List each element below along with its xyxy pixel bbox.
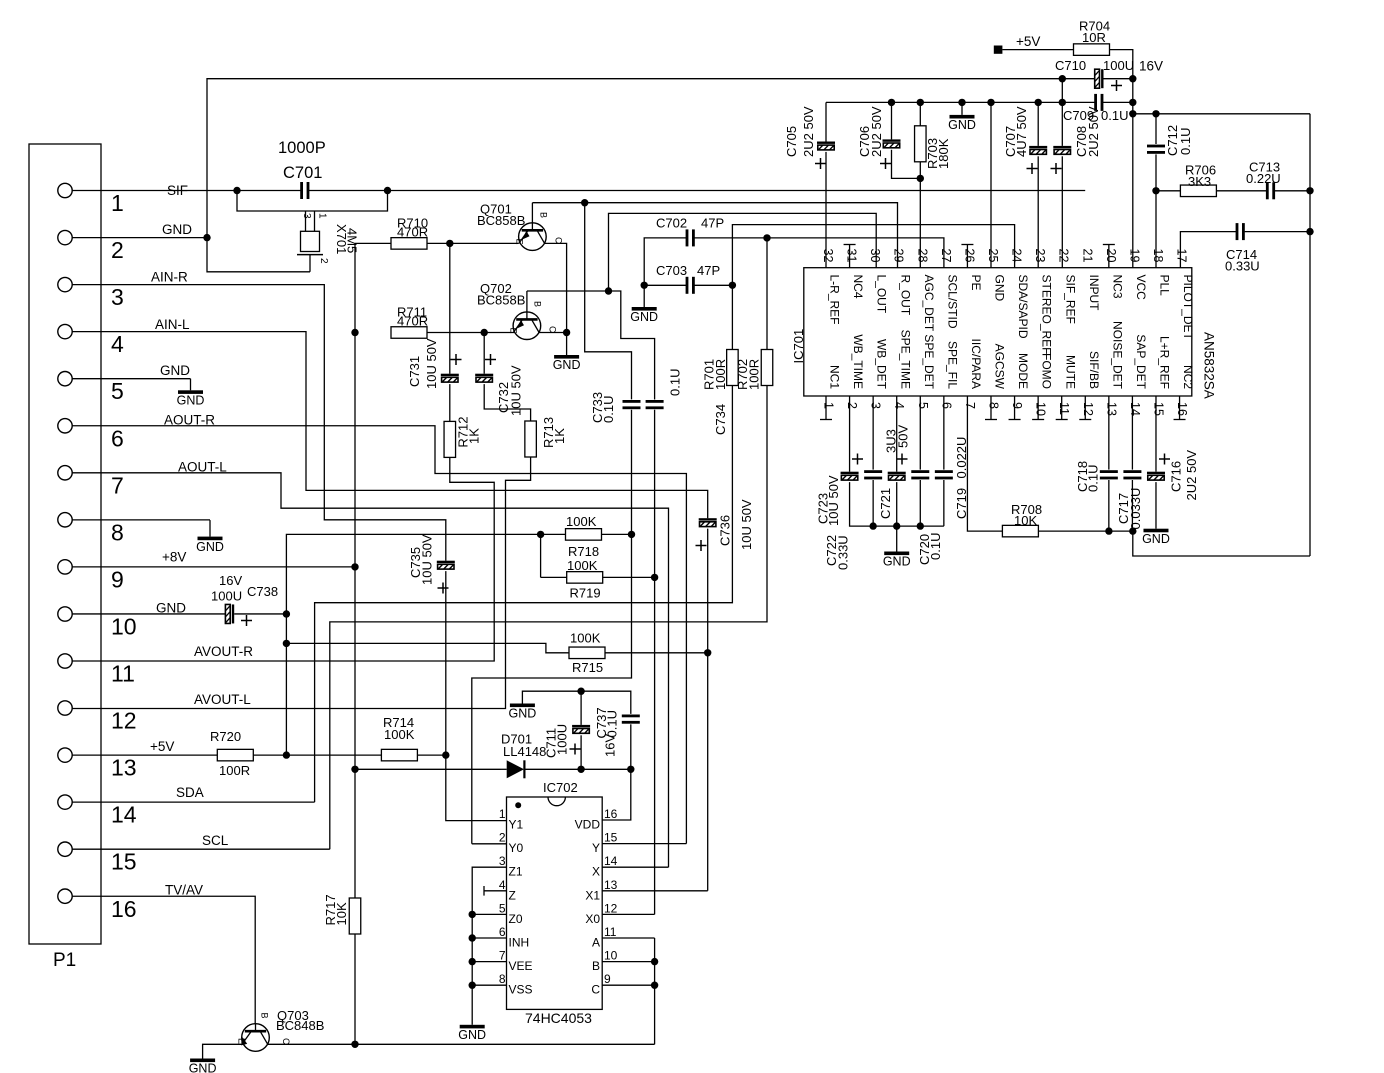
svg-text:16V: 16V: [603, 734, 618, 757]
svg-text:C710: C710: [1055, 58, 1086, 73]
Q703 pin letters: [237, 1013, 292, 1046]
svg-text:B: B: [539, 212, 549, 218]
C709 label: [1063, 108, 1128, 123]
C710 label: [1055, 58, 1134, 73]
node junction bottom rail pin3: [869, 522, 876, 529]
svg-text:STEREO_REF: STEREO_REF: [1040, 275, 1054, 355]
C720 label: [917, 533, 943, 565]
wire GND pin5: [72, 378, 190, 380]
IC702 part number: [525, 1010, 592, 1026]
svg-text:INPUT: INPUT: [1087, 275, 1101, 312]
node junction GND pin2: [203, 234, 210, 241]
transistor Q702: [513, 291, 541, 340]
wire +8V riser: [354, 243, 356, 769]
resistor R702: [761, 350, 773, 386]
capacitor C708: [1053, 146, 1071, 154]
svg-text:15: 15: [1151, 402, 1165, 416]
node junction VSS: [469, 982, 476, 989]
IC701 pin 22 number: [1057, 249, 1071, 263]
wire pin3 cap to rail: [872, 480, 874, 526]
wire C701 bypass loop: [237, 191, 388, 212]
wire C707 to pin23: [1037, 156, 1039, 267]
IC701 pin 19 name VCC: [1134, 275, 1148, 301]
IC702 pin 12 name X0: [585, 912, 600, 926]
svg-text:PILOT_DET: PILOT_DET: [1181, 275, 1195, 341]
wire Q703 emitter to gnd: [203, 1044, 242, 1058]
svg-text:INH: INH: [509, 936, 530, 950]
X701 pin 3 label: [301, 213, 312, 219]
wire Q703 collector line: [268, 1043, 655, 1045]
ground symbol C702 C703: [630, 285, 658, 324]
wire Q701 base to pin29 R_OUT: [532, 203, 897, 268]
wire R701 to SDA line: [315, 386, 733, 803]
C701 value 1000P: [278, 139, 326, 157]
wire AOUT-L pin7 to mux X: [72, 473, 668, 867]
C711 plus: [570, 744, 581, 755]
svg-text:Z1: Z1: [509, 865, 523, 879]
svg-text:1: 1: [317, 213, 328, 219]
IC701 pin 3 name WB_DET: [875, 339, 889, 390]
wire GND pin8: [72, 519, 210, 521]
svg-text:E: E: [515, 239, 525, 245]
P1 pin 12 number: [111, 708, 137, 734]
svg-text:100K: 100K: [570, 630, 601, 645]
svg-text:SCL/STID: SCL/STID: [945, 275, 959, 329]
C708 plus: [1051, 163, 1062, 174]
svg-text:5: 5: [916, 402, 930, 409]
net label SDA: [176, 785, 204, 800]
svg-text:21: 21: [1080, 249, 1094, 263]
wire SDA pin14: [72, 801, 314, 803]
capacitor C735: [437, 561, 455, 569]
svg-text:R719: R719: [570, 586, 601, 601]
wire R719 right: [603, 576, 655, 578]
svg-text:SPE_DET: SPE_DET: [922, 334, 936, 389]
node junction R714 out: [442, 751, 449, 758]
wire R704 to VCC corner: [1110, 50, 1133, 79]
svg-text:SPE_TIME: SPE_TIME: [898, 330, 912, 389]
ground symbol top rail: [948, 102, 976, 132]
svg-text:100U: 100U: [1103, 58, 1134, 73]
svg-text:SIF_REF: SIF_REF: [1063, 275, 1077, 324]
wire C732 to R713: [484, 384, 530, 421]
R708 label: [1011, 502, 1042, 528]
IC702 pin 10 name B: [592, 959, 600, 973]
IC702 pin 9 name C: [591, 983, 600, 997]
IC701 pin 3 number: [869, 402, 883, 409]
D701 label: [501, 732, 546, 760]
wire R703 bottom to pin28: [919, 162, 921, 268]
P1 pin 15 number: [111, 849, 137, 875]
svg-text:74HC4053: 74HC4053: [525, 1010, 592, 1026]
svg-text:4: 4: [499, 878, 506, 892]
svg-text:14: 14: [111, 802, 137, 828]
C735 plus: [438, 583, 449, 594]
IC701 pin 20 name NC3: [1110, 275, 1124, 299]
IC701 pin 24 number: [1010, 249, 1024, 263]
IC701 pin 8 stub: [985, 396, 997, 420]
svg-text:47P: 47P: [701, 216, 724, 231]
node junction B: [651, 958, 658, 965]
wire mux Y pin15: [602, 843, 686, 845]
wire C707 riser top: [1037, 102, 1039, 145]
C719 label: [954, 437, 969, 519]
node junction right bus C713: [1306, 187, 1313, 194]
node junction bottom rail pin5: [917, 522, 924, 529]
node junction C702 R702: [763, 234, 770, 241]
svg-text:5: 5: [111, 378, 124, 404]
wire C731 top: [449, 243, 451, 373]
svg-text:100R: 100R: [219, 763, 250, 778]
IC701 pin 15 number: [1151, 402, 1165, 416]
IC701 pin 2 number: [845, 402, 859, 409]
svg-text:IIC/PARA: IIC/PARA: [969, 339, 983, 389]
wire R710 to Q701 emitter: [427, 242, 519, 244]
wire mux X pin14: [602, 866, 668, 868]
node junction R708 pin14: [1129, 527, 1136, 534]
IC702 pin 5 number: [499, 901, 506, 915]
C721 label: [878, 425, 911, 519]
R710 label: [397, 216, 428, 240]
IC701 pin 27 number: [939, 249, 953, 263]
IC702 pin 8 number: [499, 972, 506, 986]
svg-text:1000P: 1000P: [278, 139, 326, 157]
IC701 pin 6 name SPE_FIL: [945, 341, 959, 389]
svg-text:19: 19: [1127, 249, 1141, 263]
IC702 pin4 Z stub: [484, 886, 507, 896]
op-amp U IC701 box: [804, 268, 1192, 396]
svg-text:B: B: [260, 1013, 270, 1019]
C732 plus: [485, 354, 496, 365]
P1 pin 1 number: [111, 190, 124, 216]
svg-text:GND: GND: [162, 222, 192, 237]
C733 label: [590, 392, 616, 423]
IC701 pin 6 number: [939, 402, 953, 409]
svg-text:SCL: SCL: [202, 833, 229, 848]
wire pin2 riser: [849, 396, 851, 472]
node junction R720 out: [283, 751, 290, 758]
svg-text:1: 1: [822, 402, 836, 409]
svg-text:IC702: IC702: [543, 780, 578, 795]
wire mux A B C join: [602, 938, 654, 1044]
R711 label: [397, 305, 428, 329]
wire C712 top: [1155, 114, 1157, 144]
svg-text:10U 50V: 10U 50V: [420, 534, 435, 585]
wire VCC vertical: [1132, 79, 1134, 268]
resistor R710: [391, 238, 427, 250]
svg-text:P1: P1: [53, 950, 76, 971]
IC702 pin 9 number: [604, 972, 611, 986]
svg-text:GND: GND: [553, 358, 581, 372]
wire SIF C701 to pin21 INPUT: [309, 190, 1085, 192]
capacitor C719: [935, 470, 953, 479]
svg-text:GND: GND: [196, 540, 224, 554]
svg-text:NC3: NC3: [1110, 275, 1124, 299]
svg-text:9: 9: [1010, 402, 1024, 409]
wire TV/AV pin16: [72, 896, 255, 1023]
wire R717 bottom: [354, 934, 356, 1044]
IC701 pin 27 name SCL/STID: [945, 275, 959, 329]
svg-text:2: 2: [111, 237, 124, 263]
P1 pin 4 number: [111, 331, 124, 357]
svg-text:20: 20: [1104, 249, 1118, 263]
svg-text:NC4: NC4: [851, 275, 865, 299]
svg-text:R715: R715: [572, 660, 603, 675]
wire AIN-L pin4: [72, 332, 708, 519]
net label SIF: [167, 183, 188, 198]
node junction top rail at C710 branch: [1059, 75, 1066, 82]
svg-text:16V: 16V: [219, 573, 242, 588]
resistor R719: [567, 572, 603, 584]
wire C703 left: [644, 284, 686, 286]
wire C708 riser top: [1061, 102, 1063, 145]
svg-text:C703: C703: [656, 263, 687, 278]
ground symbol Q70x collectors: [553, 355, 581, 372]
svg-text:C719: C719: [954, 488, 969, 519]
node junction +8V: [351, 563, 358, 570]
node junction SIF left: [233, 187, 240, 194]
wire R717 top: [354, 769, 356, 898]
wire C712 to PLL node: [1155, 154, 1157, 190]
wire pin5 riser: [919, 396, 921, 470]
svg-text:2U2 50V: 2U2 50V: [869, 106, 884, 157]
node junction SIF right: [384, 187, 391, 194]
IC701 pin 28 number: [915, 249, 929, 263]
node junction AGC_DET: [917, 175, 924, 182]
net label AIN-L: [155, 317, 190, 332]
resistor R703: [915, 126, 927, 162]
net label GND pin10: [156, 601, 186, 616]
node junction C738 plus node: [283, 610, 290, 617]
svg-text:LL4148: LL4148: [503, 744, 546, 759]
node junction R715 X1 riser: [704, 649, 711, 656]
wire D701 cathode: [524, 768, 630, 770]
svg-text:50V: 50V: [896, 425, 911, 448]
IC702 pin 5 name Z0: [509, 912, 523, 926]
net label AIN-R: [151, 270, 188, 285]
svg-text:6: 6: [499, 925, 506, 939]
svg-text:GND: GND: [630, 310, 658, 324]
wire C714 right: [1245, 231, 1310, 233]
Q701 pin letters: [515, 212, 564, 245]
svg-text:15: 15: [604, 831, 618, 845]
Q703 label: [276, 1008, 324, 1033]
C716 label: [1169, 450, 1200, 501]
wire pin14 cap to R708 line: [1131, 480, 1133, 531]
wire C737 bottom: [630, 724, 632, 769]
svg-text:14: 14: [1128, 402, 1142, 416]
svg-text:B: B: [592, 959, 600, 973]
IC702 reference label: [543, 780, 578, 795]
wire X701 pin2 to GND net: [207, 238, 310, 272]
svg-text:BC848B: BC848B: [276, 1018, 324, 1033]
net label GND pin5: [160, 363, 190, 378]
C736 label: [718, 499, 755, 550]
R703 label: [925, 138, 951, 169]
X701 label: [334, 224, 360, 254]
P1 pin 6 number: [111, 425, 124, 451]
C738 label: [211, 573, 278, 604]
resistor R720: [217, 749, 253, 761]
svg-text:9: 9: [604, 972, 611, 986]
svg-text:11: 11: [111, 661, 135, 687]
IC702 pin 3 number: [499, 854, 506, 868]
svg-text:AIN-R: AIN-R: [151, 270, 188, 285]
wire pin13 riser: [1108, 396, 1110, 470]
svg-text:2: 2: [845, 402, 859, 409]
IC701 pin 1 stub: [820, 396, 832, 420]
IC702 pin 7 name VEE: [509, 959, 533, 973]
svg-text:1: 1: [499, 807, 506, 821]
svg-text:10: 10: [604, 949, 618, 963]
svg-text:B: B: [533, 301, 543, 307]
svg-text:GND: GND: [993, 275, 1007, 302]
svg-text:R720: R720: [210, 729, 241, 744]
wire R713 out to AVOUT-L: [72, 457, 530, 709]
P1 pin 11 number: [111, 661, 135, 687]
P1 pin 16 number: [111, 896, 137, 922]
wire GND pin2: [72, 237, 207, 239]
IC701 pin 4 name SPE_TIME: [898, 330, 912, 389]
node junction C pin9: [651, 982, 658, 989]
node junction Q702 base: [605, 287, 612, 294]
node junction Q702 collector: [563, 329, 570, 336]
node junction Z0: [469, 911, 476, 918]
IC701 pin 10 number: [1034, 402, 1048, 416]
svg-text:VDD: VDD: [575, 818, 601, 832]
IC701 pin 9 number: [1010, 402, 1024, 409]
P1 pin 14 number: [111, 802, 137, 828]
svg-text:VEE: VEE: [509, 959, 533, 973]
Q701 label: [477, 202, 525, 229]
svg-text:1: 1: [111, 190, 124, 216]
svg-text:17: 17: [1175, 249, 1189, 263]
IC701 pin 31 name NC4: [851, 275, 865, 299]
svg-text:28: 28: [915, 249, 929, 263]
IC702 pin 15 number: [604, 831, 618, 845]
wire mux Y0 from C733 net: [472, 843, 507, 845]
wire +5V to R704: [1002, 49, 1073, 51]
svg-text:VCC: VCC: [1134, 275, 1148, 301]
IC701 pin 5 name SPE_DET: [922, 334, 936, 389]
capacitor C718: [1100, 470, 1118, 479]
node junction R710 out: [446, 240, 453, 247]
svg-text:+5V: +5V: [1016, 34, 1040, 49]
C703 label: [656, 263, 720, 278]
svg-text:BC858B: BC858B: [477, 293, 525, 308]
svg-text:C736: C736: [718, 515, 733, 546]
capacitor C706: [883, 139, 901, 147]
R715 label: [570, 630, 603, 675]
IC701 pin 26 NC stub: [961, 245, 973, 268]
resistor R704: [1074, 44, 1110, 56]
R702 label: [735, 359, 762, 390]
wire R715 right: [605, 652, 708, 654]
svg-text:SIF/BB: SIF/BB: [1087, 351, 1101, 389]
wire C736 to pin13 X1: [707, 529, 709, 891]
IC701 pin 22 name SIF_REF: [1063, 275, 1077, 324]
wire pin3 riser: [872, 396, 874, 470]
svg-text:GND: GND: [948, 118, 976, 132]
svg-text:R_OUT: R_OUT: [898, 275, 912, 316]
IC702 pin 1 number: [499, 807, 506, 821]
wire R702 top: [766, 238, 768, 350]
svg-text:GND: GND: [177, 394, 205, 408]
wire C713 right: [1275, 190, 1310, 192]
ground symbol IC701 bottom: [883, 526, 911, 569]
IC701 pin 30 name L_OUT: [875, 275, 889, 314]
IC702 pin 1 name Y1: [509, 818, 524, 832]
svg-text:BC858B: BC858B: [477, 213, 525, 228]
wire pin2 cap to rail: [850, 482, 944, 526]
R717 label: [323, 894, 349, 925]
svg-text:8: 8: [111, 519, 124, 545]
wire R703 top: [919, 102, 921, 125]
node junction R711 left: [351, 329, 358, 336]
svg-text:L+R_REF: L+R_REF: [1158, 336, 1172, 389]
svg-text:5: 5: [499, 901, 506, 915]
svg-text:GND: GND: [883, 555, 911, 569]
svg-text:30: 30: [868, 249, 882, 263]
IC702 pin 14 name X: [592, 865, 600, 879]
C706 plus: [880, 158, 891, 169]
capacitor C732: [475, 374, 493, 382]
svg-text:C738: C738: [247, 584, 278, 599]
svg-text:MUTE: MUTE: [1063, 355, 1077, 389]
IC701 pin 2 name WB_TIME: [851, 334, 865, 389]
svg-text:47P: 47P: [697, 263, 720, 278]
node junction C733 top: [581, 199, 588, 206]
wire GND rail corner to C705: [825, 102, 827, 141]
connector P1: [29, 144, 101, 944]
wire C703 right: [694, 284, 732, 286]
wire PLL to R706: [1156, 190, 1180, 192]
svg-text:C705: C705: [784, 126, 799, 157]
wire GND pin10 to C738: [72, 613, 225, 615]
wire X701 pin2 stub: [309, 255, 311, 272]
IC702 pin 14 number: [604, 854, 618, 868]
C737 label: [594, 707, 620, 757]
capacitor C714: [1236, 223, 1245, 240]
capacitor C738: [225, 604, 234, 623]
C705 label: [784, 106, 816, 157]
svg-text:3: 3: [499, 854, 506, 868]
IC701 pin 16 stub: [1174, 396, 1186, 420]
svg-text:13: 13: [111, 755, 137, 781]
svg-text:WB_TIME: WB_TIME: [851, 334, 865, 389]
ground symbol C716: [1142, 529, 1170, 546]
svg-text:X0: X0: [585, 912, 600, 926]
C731 plus: [451, 354, 462, 365]
wire C735 to R714 node: [445, 571, 447, 755]
IC702 pin 12 number: [604, 901, 618, 915]
IC701 pin 17 number: [1175, 249, 1189, 263]
IC702 pin 7 number: [499, 949, 506, 963]
wire pin17 to C714: [1180, 232, 1236, 268]
wire pin15 riser: [1155, 396, 1157, 472]
capacitor C713: [1266, 182, 1275, 199]
Q702 label: [477, 281, 525, 308]
resistor R718: [566, 529, 602, 541]
svg-text:VSS: VSS: [509, 983, 533, 997]
capacitor C712: [1147, 145, 1165, 154]
IC701 pin 13 number: [1104, 402, 1118, 416]
wire C706 bottom: [892, 150, 921, 179]
net label 16V: [1139, 59, 1163, 74]
P1 pin 2 number: [111, 237, 124, 263]
ground symbol Q703: [189, 1059, 217, 1073]
svg-text:NC2: NC2: [1181, 365, 1195, 389]
